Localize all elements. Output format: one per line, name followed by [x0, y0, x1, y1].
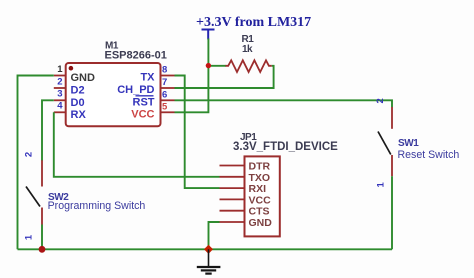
wire: R1 right lead down to CH_PD [175, 66, 274, 88]
wire: GND pin to left rail down [18, 76, 54, 250]
JP1 pin 4 VCC stub [220, 198, 246, 200]
svg-text:CH_PD: CH_PD [117, 84, 154, 96]
svg-text:TX: TX [140, 72, 155, 84]
pin 2 D2 stub [54, 87, 66, 89]
wire: VCC pin 5 to power junction [175, 66, 209, 113]
wire: junction to R1 left lead [208, 65, 226, 67]
switch SW1 [378, 107, 459, 176]
pin 4 RX stub [54, 111, 66, 113]
wire: SW2 bottom to ground rail [41, 225, 43, 250]
pin 5 VCC stub [160, 111, 175, 113]
svg-text:4: 4 [57, 101, 63, 112]
wire: RST pin to SW1 [175, 100, 393, 107]
node: SW2 ground junction [39, 246, 46, 253]
svg-text:5: 5 [162, 101, 168, 112]
JP1 pin 1 DTR stub [220, 165, 246, 167]
svg-text:RX: RX [71, 109, 87, 121]
svg-text:+3.3V from LM317: +3.3V from LM317 [196, 15, 311, 30]
wire: TX pin to JP1 RXI [175, 76, 220, 189]
pin 8 TX stub [160, 75, 175, 77]
svg-text:1k: 1k [242, 44, 253, 55]
svg-text:2: 2 [57, 76, 62, 87]
wire: JP1 GND to ground rail [209, 222, 220, 249]
svg-text:2: 2 [24, 152, 35, 157]
pin 7 CH_PD stub [160, 87, 175, 89]
node: center ground junction [204, 245, 213, 254]
svg-text:D2: D2 [71, 85, 85, 97]
svg-text:Reset Switch: Reset Switch [398, 149, 460, 161]
svg-text:CTS: CTS [249, 206, 270, 218]
pin 3 D0 stub [54, 99, 66, 101]
svg-text:GND: GND [249, 217, 273, 229]
svg-text:SW1: SW1 [398, 138, 419, 149]
power supply bar symbol [202, 30, 215, 40]
op module M1 ESP8266-01 body [66, 40, 167, 126]
pin 1 GND stub [54, 75, 66, 77]
JP1 pin 5 CTS stub [220, 210, 246, 212]
svg-text:3: 3 [57, 89, 62, 100]
wire: D0 pin to SW2 [42, 100, 54, 160]
svg-text:ESP8266-01: ESP8266-01 [105, 50, 167, 62]
svg-text:7: 7 [162, 77, 167, 88]
wire: SW1 bottom to ground rail [391, 176, 393, 249]
svg-text:RXI: RXI [249, 183, 267, 195]
svg-text:2: 2 [375, 98, 386, 103]
svg-text:D0: D0 [71, 97, 85, 109]
svg-text:6: 6 [162, 89, 167, 100]
JP1 pin 2 TXO stub [220, 176, 246, 178]
svg-text:VCC: VCC [249, 194, 272, 206]
ground symbol [197, 249, 221, 273]
wire: power bar down to junction [207, 39, 209, 66]
svg-text:8: 8 [162, 65, 167, 76]
node: +3.3V junction [206, 63, 211, 68]
pin name RST with overline [133, 96, 155, 109]
pin 6 RST stub [160, 99, 175, 101]
switch SW2 [26, 160, 145, 224]
svg-text:1: 1 [376, 182, 387, 188]
wire: RX pin to JP1 TXO [54, 112, 220, 177]
resistor R1 [226, 34, 272, 72]
svg-text:DTR: DTR [249, 161, 271, 173]
JP1 pin 3 RXI stub [220, 187, 246, 189]
svg-text:Programming Switch: Programming Switch [48, 200, 146, 212]
svg-text:3.3V_FTDI_DEVICE: 3.3V_FTDI_DEVICE [233, 141, 338, 153]
JP1 pin 6 GND stub [220, 221, 246, 223]
svg-text:TXO: TXO [249, 172, 271, 184]
connector JP1 body [233, 132, 338, 236]
svg-text:RST: RST [133, 97, 155, 109]
svg-text:GND: GND [71, 72, 96, 84]
svg-text:1: 1 [23, 234, 34, 240]
wire: bottom ground rail [18, 248, 393, 250]
svg-text:VCC: VCC [131, 109, 154, 121]
power net label +3.3V [196, 15, 311, 30]
svg-text:1: 1 [57, 64, 63, 75]
